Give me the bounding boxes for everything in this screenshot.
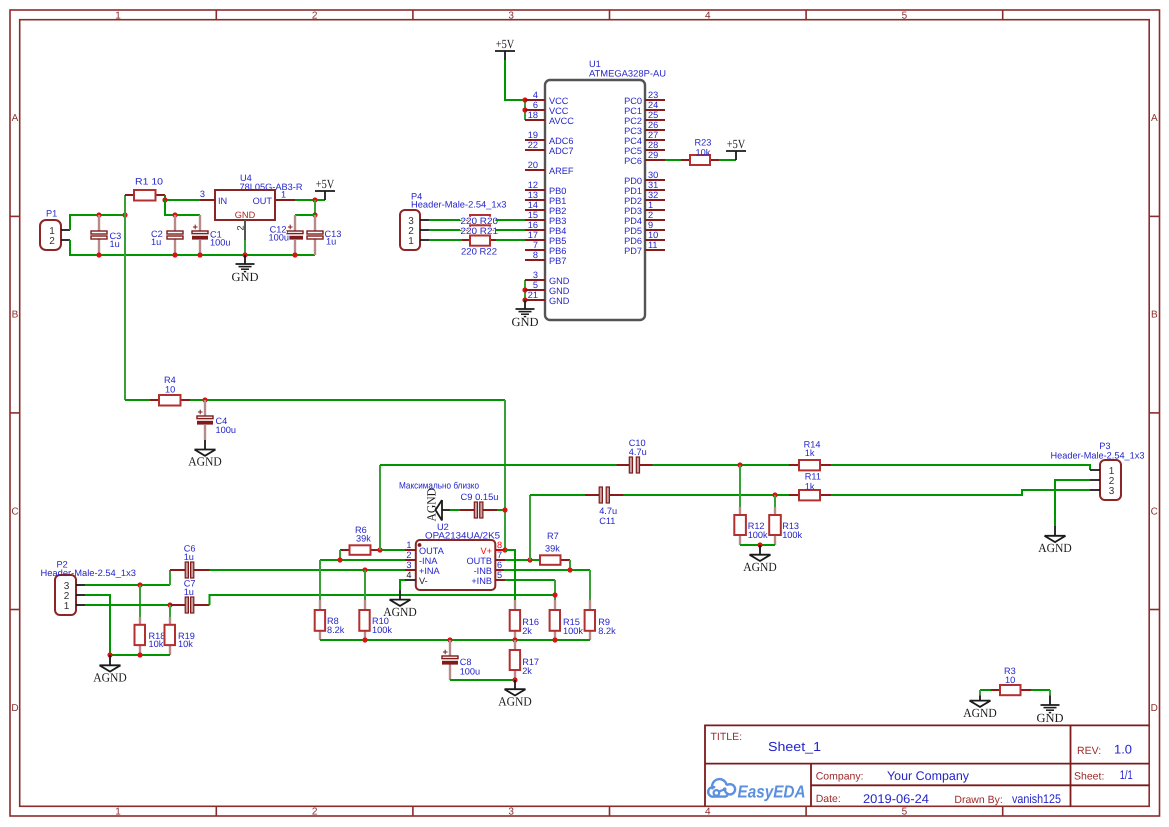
node R15 bottom: [552, 637, 557, 642]
svg-text:4: 4: [705, 807, 711, 818]
svg-text:9: 9: [648, 220, 653, 230]
node R13 tap: [772, 492, 777, 497]
resistor R8: [315, 600, 345, 640]
svg-text:4.7u: 4.7u: [629, 447, 647, 457]
wire C8 to R17 bottom: [450, 679, 515, 681]
svg-text:1: 1: [406, 540, 411, 550]
wire PC6 to R23: [665, 159, 681, 161]
svg-text:R4: R4: [164, 375, 176, 385]
svg-text:31: 31: [648, 180, 658, 190]
node R18 bottom: [137, 652, 142, 657]
wire R7 jog to -INB: [569, 560, 571, 570]
wire agnd to R3: [980, 689, 991, 691]
wire R4 to V+ rail: [190, 399, 505, 401]
svg-text:5: 5: [497, 570, 502, 580]
svg-text:29: 29: [648, 150, 658, 160]
svg-text:VCC: VCC: [549, 106, 569, 116]
svg-text:4: 4: [406, 570, 411, 580]
svg-text:1u: 1u: [151, 237, 161, 247]
pin 9 PD5: [645, 229, 665, 231]
svg-text:1: 1: [115, 807, 121, 818]
wire R3 to gnd: [1031, 689, 1050, 691]
wire V+ vertical: [504, 400, 506, 510]
svg-text:32: 32: [648, 190, 658, 200]
wire raw to R4: [125, 399, 150, 401]
wire R12/R13 bottom rail: [740, 544, 775, 546]
svg-text:PC0: PC0: [624, 96, 642, 106]
wire R11 to P3.3: [831, 490, 1090, 495]
pin 20 AREF: [525, 169, 545, 171]
resistor R7: [540, 531, 570, 565]
svg-text:28: 28: [648, 140, 658, 150]
svg-text:OPA2134UA/2K5: OPA2134UA/2K5: [425, 531, 500, 541]
wire +INB row: [505, 579, 555, 581]
ground AGND (P2): [109, 655, 111, 665]
wire P4.2 to R21: [429, 229, 462, 231]
svg-text:15: 15: [528, 210, 538, 220]
node VCC pin4: [522, 97, 527, 102]
wire R23 to +5V: [719, 159, 736, 161]
svg-text:24: 24: [648, 100, 658, 110]
pin 23 PC0: [645, 99, 665, 101]
svg-text:PB2: PB2: [549, 206, 566, 216]
svg-text:AGND: AGND: [1038, 541, 1072, 555]
svg-text:PD3: PD3: [624, 206, 642, 216]
svg-text:1u: 1u: [110, 239, 120, 249]
svg-text:7: 7: [533, 240, 538, 250]
node R17/agnd: [512, 677, 517, 682]
svg-text:AREF: AREF: [549, 166, 574, 176]
svg-text:2019-06-24: 2019-06-24: [863, 792, 929, 806]
capacitor C9: [450, 492, 499, 518]
svg-text:30: 30: [648, 170, 658, 180]
ground AGND rotated (C9): [425, 488, 451, 522]
svg-text:V-: V-: [419, 576, 428, 586]
wire -INB row: [504, 569, 590, 571]
resistor R6: [340, 525, 380, 555]
svg-text:REV:: REV:: [1077, 745, 1101, 757]
svg-text:10k: 10k: [696, 147, 711, 157]
svg-text:PD0: PD0: [624, 176, 642, 186]
svg-text:V+: V+: [481, 546, 493, 556]
title block: [705, 725, 1149, 806]
svg-text:PB1: PB1: [549, 196, 566, 206]
pin 7 OUTB: [495, 559, 505, 561]
svg-text:C8: C8: [460, 657, 472, 667]
wire GND pins vertical: [524, 280, 526, 300]
wire C11 to R11: [624, 494, 790, 496]
node agnd stem (R12R13): [757, 542, 762, 547]
wire P4.1 to R22: [429, 239, 462, 241]
node C1 gnd: [197, 252, 202, 257]
svg-text:OUTB: OUTB: [466, 556, 492, 566]
svg-text:2: 2: [312, 10, 318, 21]
svg-text:vanish125: vanish125: [1012, 792, 1061, 806]
pin 5 GND: [525, 289, 545, 291]
node GND pin5: [522, 287, 527, 292]
svg-text:25: 25: [648, 110, 658, 120]
svg-text:R1 10: R1 10: [135, 177, 163, 187]
wire R12 vertical: [739, 465, 741, 507]
svg-text:+5V: +5V: [316, 177, 335, 191]
svg-text:10: 10: [1005, 675, 1015, 685]
ground AGND (V-): [399, 590, 401, 600]
svg-text:2: 2: [49, 236, 55, 247]
node R18 tap: [137, 582, 142, 587]
svg-text:20: 20: [528, 160, 538, 170]
pin 14 PB2: [525, 209, 545, 211]
pin 6 VCC: [525, 109, 545, 111]
resistor R14: [789, 440, 831, 471]
regulator U4: [200, 173, 303, 240]
wire -INA row: [320, 559, 405, 561]
svg-text:Date:: Date:: [816, 793, 841, 805]
wire to C2/C1 tops: [165, 200, 200, 215]
wire R22 to PB5: [496, 239, 525, 241]
svg-text:16: 16: [528, 220, 538, 230]
svg-text:PB6: PB6: [549, 246, 566, 256]
svg-text:PD4: PD4: [624, 216, 642, 226]
wire R10 vertical: [364, 570, 366, 600]
header P1: [40, 209, 70, 251]
svg-text:1: 1: [115, 10, 121, 21]
svg-text:2: 2: [236, 225, 246, 230]
svg-text:13: 13: [528, 190, 538, 200]
svg-text:21: 21: [528, 290, 538, 300]
svg-text:AGND: AGND: [425, 488, 439, 522]
capacitor C7: [170, 579, 210, 614]
wire R21 to PB4: [496, 229, 525, 231]
svg-text:1u: 1u: [184, 587, 194, 597]
svg-text:OUTA: OUTA: [419, 546, 445, 556]
svg-text:100k: 100k: [748, 530, 768, 540]
resistor R4: [150, 375, 190, 406]
pin 22 ADC7: [525, 149, 545, 151]
svg-text:+INB: +INB: [471, 576, 492, 586]
svg-text:+5V: +5V: [496, 37, 515, 51]
svg-text:8: 8: [497, 540, 502, 550]
wire VCC/AVCC vertical: [524, 100, 526, 120]
node R16 bottom: [512, 637, 517, 642]
svg-text:R7: R7: [547, 531, 559, 541]
capacitor C10: [617, 438, 653, 473]
svg-text:C: C: [1151, 506, 1158, 517]
svg-text:PB7: PB7: [549, 256, 566, 266]
pin 10 PD6: [645, 239, 665, 241]
svg-text:220 R21: 220 R21: [461, 226, 499, 236]
svg-text:1: 1: [648, 200, 653, 210]
wire C7 jog to +INB row: [210, 595, 556, 605]
svg-text:8.2k: 8.2k: [598, 626, 616, 636]
pin 24 PC1: [645, 109, 665, 111]
pin 26 PC3: [645, 129, 665, 131]
svg-text:14: 14: [528, 200, 538, 210]
wire R6 left jog: [339, 550, 341, 560]
pin 7 PB6: [525, 249, 545, 251]
svg-text:11: 11: [648, 240, 658, 250]
svg-text:GND: GND: [549, 286, 570, 296]
resistor R9: [585, 600, 616, 640]
wire P1.1 to +rail: [70, 215, 125, 230]
pin 4 V-: [405, 579, 416, 581]
svg-text:3: 3: [508, 807, 514, 818]
svg-text:17: 17: [528, 230, 538, 240]
svg-text:2: 2: [406, 550, 411, 560]
resistor R15: [550, 600, 584, 640]
svg-text:GND: GND: [549, 296, 570, 306]
svg-text:C9 0.15u: C9 0.15u: [461, 492, 499, 502]
svg-text:+: +: [443, 647, 448, 657]
wire +INB jog down: [554, 580, 556, 600]
pin 2 PD4: [645, 219, 665, 221]
svg-text:B: B: [12, 310, 19, 321]
node C12 gnd: [292, 252, 297, 257]
wire +5V to VCC: [505, 60, 525, 100]
resistor R23: [681, 138, 719, 166]
svg-text:Your Company: Your Company: [887, 769, 970, 783]
wire to C12 top: [295, 214, 315, 216]
svg-text:5: 5: [902, 807, 908, 818]
pin 28 PC5: [645, 149, 665, 151]
svg-text:D: D: [1151, 703, 1158, 714]
pin 3 +INA: [405, 569, 416, 571]
svg-text:100k: 100k: [372, 625, 392, 635]
svg-text:6: 6: [533, 100, 538, 110]
power flag +5V (R23): [726, 137, 746, 160]
svg-text:+: +: [193, 222, 198, 232]
svg-text:C11: C11: [599, 516, 615, 526]
svg-text:3: 3: [533, 270, 538, 280]
svg-text:PC5: PC5: [624, 146, 642, 156]
svg-text:1: 1: [64, 601, 70, 612]
svg-text:U1: U1: [589, 59, 601, 69]
resistor R1: [125, 177, 165, 201]
svg-text:2: 2: [648, 210, 653, 220]
wire OUTA up to C10 row: [379, 465, 381, 550]
wire P1.2 to gnd rail: [70, 240, 315, 255]
node C13 top: [312, 212, 317, 217]
svg-text:B: B: [1151, 310, 1158, 321]
resistor R20: [461, 215, 499, 226]
svg-text:100u: 100u: [216, 425, 236, 435]
pin 30 PD0: [645, 179, 665, 181]
ground AGND (R17): [514, 680, 516, 689]
ground GND (R3): [1049, 690, 1051, 696]
node R1/IN/caps: [162, 197, 167, 202]
resistor R3: [991, 666, 1031, 695]
ground GND (U1): [524, 300, 526, 309]
svg-text:39k: 39k: [356, 534, 371, 544]
node U4 gnd: [242, 252, 247, 257]
node C4 tap: [202, 397, 207, 402]
svg-text:1.0: 1.0: [1114, 743, 1132, 757]
svg-text:AGND: AGND: [743, 560, 777, 574]
svg-text:C: C: [11, 506, 18, 517]
node OUT junction: [312, 197, 317, 202]
wire P4.3 to R20: [429, 219, 462, 221]
node R12 tap: [737, 462, 742, 467]
capacitor C11: [585, 487, 624, 526]
wire P2.1: [85, 604, 170, 606]
svg-text:7: 7: [497, 550, 502, 560]
svg-text:ADC6: ADC6: [549, 136, 574, 146]
svg-text:PD7: PD7: [624, 246, 642, 256]
ground AGND (R3): [979, 690, 981, 696]
svg-text:+5V: +5V: [727, 137, 746, 151]
wire P2.3: [85, 584, 170, 586]
pin 18 AVCC: [525, 119, 545, 121]
wire raw to R4 vertical: [124, 215, 126, 400]
svg-text:100k: 100k: [563, 626, 583, 636]
svg-text:ATMEGA328P-AU: ATMEGA328P-AU: [589, 69, 666, 79]
capacitor C13: [307, 215, 341, 255]
svg-text:EasyEDA: EasyEDA: [738, 781, 806, 801]
svg-text:23: 23: [648, 90, 658, 100]
node V+ pin8: [502, 547, 507, 552]
resistor R19: [165, 605, 195, 655]
svg-text:3: 3: [200, 189, 205, 199]
resistor R21: [461, 225, 499, 236]
svg-text:22: 22: [528, 140, 538, 150]
resistor R10: [359, 600, 392, 640]
capacitor C2: [151, 215, 183, 255]
svg-text:3: 3: [1109, 486, 1115, 497]
svg-text:AVCC: AVCC: [549, 116, 574, 126]
capacitor C8: [442, 640, 480, 680]
node C2 gnd: [172, 252, 177, 257]
svg-text:PD1: PD1: [624, 186, 642, 196]
node agnd stem: [107, 652, 112, 657]
svg-text:GND: GND: [511, 315, 538, 329]
svg-text:2k: 2k: [522, 626, 532, 636]
svg-text:GND: GND: [235, 210, 256, 220]
pin 4 VCC: [525, 99, 545, 101]
svg-text:-INB: -INB: [474, 566, 492, 576]
svg-text:39k: 39k: [545, 544, 560, 554]
pin 2 -INA: [405, 559, 416, 561]
node C8 top: [447, 637, 452, 642]
svg-text:4.7u: 4.7u: [599, 506, 617, 516]
svg-text:1k: 1k: [805, 481, 815, 491]
svg-text:GND: GND: [1036, 711, 1063, 725]
capacitor C4: [197, 400, 236, 440]
svg-text:1: 1: [281, 190, 286, 200]
svg-text:4: 4: [705, 10, 711, 21]
svg-text:100k: 100k: [782, 530, 802, 540]
svg-text:PB3: PB3: [549, 216, 566, 226]
svg-text:Sheet:: Sheet:: [1074, 771, 1104, 783]
node +INB/C7/R15: [552, 592, 557, 597]
svg-text:-INA: -INA: [419, 556, 438, 566]
pin 1 PD3: [645, 209, 665, 211]
pin 1 OUTA: [405, 549, 416, 551]
svg-text:AGND: AGND: [383, 605, 417, 619]
ground AGND (P3): [1054, 526, 1056, 536]
svg-text:PC1: PC1: [624, 106, 642, 116]
svg-text:Drawn By:: Drawn By:: [954, 794, 1002, 806]
svg-text:GND: GND: [231, 270, 258, 284]
pin 19 ADC6: [525, 139, 545, 141]
node OUTA: [377, 547, 382, 552]
power flag +5V (U1): [495, 37, 515, 60]
wire C10 to R14: [653, 464, 790, 466]
svg-text:AGND: AGND: [93, 671, 127, 685]
capacitor C1: [192, 215, 230, 255]
svg-text:PD6: PD6: [624, 236, 642, 246]
resistor R22: [461, 236, 497, 257]
resistor R12: [734, 507, 768, 545]
svg-text:19: 19: [528, 130, 538, 140]
IC U2 OPA2134UA/2K5: [405, 522, 505, 590]
pin 29 PC6: [645, 159, 665, 161]
wire C6 to +INA: [210, 569, 406, 571]
svg-text:3: 3: [508, 10, 514, 21]
svg-text:5: 5: [902, 10, 908, 21]
pin 12 PB0: [525, 189, 545, 191]
svg-text:8: 8: [533, 250, 538, 260]
ground AGND (R12R13): [759, 545, 761, 555]
svg-text:TITLE:: TITLE:: [711, 731, 743, 743]
svg-text:PC3: PC3: [624, 126, 642, 136]
pin 6 -INB: [495, 569, 504, 571]
svg-text:PB0: PB0: [549, 186, 566, 196]
svg-text:Header-Male-2.54_1x3: Header-Male-2.54_1x3: [1051, 450, 1145, 460]
wire U4 gnd pin to rail: [244, 240, 246, 255]
pin 17 PB5: [525, 239, 545, 241]
pin 8 V+: [495, 549, 505, 551]
pin 21 GND: [525, 299, 545, 301]
svg-text:6: 6: [497, 560, 502, 570]
svg-text:1: 1: [408, 236, 414, 247]
svg-text:VCC: VCC: [549, 96, 569, 106]
wire OUT to +5V: [295, 199, 325, 201]
svg-text:PB5: PB5: [549, 236, 566, 246]
wire V- to agnd: [400, 580, 405, 590]
pin 16 PB4: [525, 229, 545, 231]
svg-text:A: A: [12, 113, 19, 124]
svg-text:AGND: AGND: [963, 706, 997, 720]
node C2 top: [172, 212, 177, 217]
svg-text:4: 4: [533, 90, 538, 100]
svg-text:IN: IN: [218, 196, 227, 206]
node R10 tap: [362, 567, 367, 572]
pin 32 PD2: [645, 199, 665, 201]
svg-text:AGND: AGND: [188, 455, 222, 469]
EasyEDA logo: [708, 779, 805, 801]
node R10 bottom: [362, 637, 367, 642]
svg-text:100u: 100u: [460, 667, 480, 677]
svg-text:GND: GND: [549, 276, 570, 286]
wire R14 to P3.1: [831, 465, 1090, 470]
wire R9 vertical: [589, 570, 591, 600]
svg-text:OUT: OUT: [253, 196, 273, 206]
svg-text:1/1: 1/1: [1120, 768, 1133, 782]
wire C10 row left: [380, 464, 617, 466]
svg-text:PD5: PD5: [624, 226, 642, 236]
svg-text:8.2k: 8.2k: [327, 625, 345, 635]
svg-text:A: A: [1151, 113, 1158, 124]
wire V+ to R16: [505, 550, 515, 600]
resistor R13: [769, 507, 802, 545]
svg-text:+: +: [288, 222, 293, 232]
svg-text:ADC7: ADC7: [549, 146, 574, 156]
svg-text:2: 2: [312, 807, 318, 818]
pin 8 PB7: [525, 259, 545, 261]
wire P2.2 to agnd: [85, 595, 110, 655]
node raw+ junction C3 top: [96, 212, 101, 217]
node GND pin21: [522, 297, 527, 302]
wire agnd rail P2: [110, 654, 170, 656]
